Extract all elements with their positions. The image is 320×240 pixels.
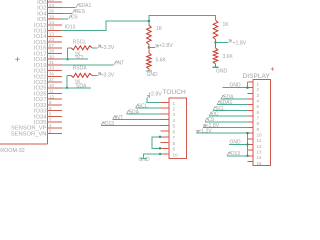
junction node at J1 pin 9 [159,147,161,149]
wire net INT from U1 IO19 [62,60,124,66]
pin 3 of J2 DISPLAY [248,93,260,98]
svg-text:24: 24 [49,3,54,8]
svg-text:7: 7 [49,117,52,122]
svg-text:10: 10 [173,152,179,157]
wire net SDA to J1 pin 3 [127,109,161,115]
supply +2.8V to J1 pin 1 [147,91,162,102]
pin IO27 (pad 12) of U1 [34,94,62,103]
wire net SCL to J2 pin 6 [213,106,248,112]
wire bracket joining J1 pins 7 and 9 [152,137,161,149]
svg-text:9: 9 [257,127,260,132]
pin 1 of J2 DISPLAY [248,81,260,86]
svg-text:25: 25 [49,0,54,2]
pin IO0 (pad 25) of U1 [37,0,62,6]
svg-text:IO13: IO13 [229,151,240,157]
wire net IO13 to J1 pin 5 [101,121,161,127]
svg-text:10: 10 [257,133,263,138]
ground flag GND under 3.6K [213,67,228,74]
svg-text:3: 3 [173,112,176,117]
svg-text:6: 6 [49,112,52,117]
pin IO17 (pad 28) of U1 [34,49,62,58]
svg-text:INT: INT [116,60,124,66]
supply +1.8V to J2 pin 9 [203,123,248,129]
pin IO23 (pad 37) of U1 [34,77,62,86]
junction node at J2 pin 14 [246,155,248,157]
pin 12 of J2 DISPLAY [248,144,263,149]
svg-text:7: 7 [173,135,176,140]
pin IO5 (pad 29) of U1 [37,14,62,23]
svg-text:1: 1 [173,101,176,106]
svg-text:RSCL: RSCL [73,40,87,46]
svg-text:GND: GND [216,69,228,75]
svg-text:33: 33 [49,66,54,71]
svg-text:SCL: SCL [75,55,85,61]
svg-text:36: 36 [49,72,54,77]
connector J2 origin cross mark [271,67,274,70]
wire net SCL from U1 IO18 [62,55,88,61]
svg-text:3: 3 [257,93,260,98]
svg-text:GND: GND [147,72,159,78]
junction node at J2 pin 2 [246,87,248,89]
pin IO35 (pad 7) of U1 [34,117,62,126]
resistor 1K (right divider top), value 1K [213,20,229,43]
svg-text:GND: GND [230,140,242,146]
supply +3.3V for RSDA [92,72,115,78]
connector J1 TOUCH body [169,98,187,159]
wire net RES from U1 IO4 [62,9,86,15]
pin 4 of J1 TOUCH [161,118,176,123]
svg-text:1K: 1K [156,26,163,32]
pin 2 of J1 TOUCH [161,107,176,112]
pin IO14 (pad 13) of U1 [34,31,62,40]
pin IO4 (pad 26) of U1 [37,9,62,18]
supply +3.3V for RSCL [92,45,115,51]
wire net SDA to J2 pin 4 [221,94,248,100]
wire net SDA1 to J2 pin 5 [217,100,248,106]
wire net SDA1 from U1 IO2 [62,3,91,9]
svg-text:IO13: IO13 [65,25,76,31]
svg-text:5: 5 [257,104,260,109]
svg-text:14: 14 [257,155,263,160]
svg-text:15: 15 [257,161,263,166]
svg-text:13: 13 [49,31,54,36]
pin 11 of J2 DISPLAY [248,138,262,143]
svg-text:3.6K: 3.6K [223,54,234,60]
svg-text:DISPLAY: DISPLAY [243,73,271,80]
pin SENSOR_VP (pad 4) of U1 [11,123,62,132]
svg-text:+2.8V: +2.8V [148,91,162,97]
svg-text:16: 16 [49,26,54,31]
pin 10 of J2 DISPLAY [248,133,263,138]
wire RSDA branch down to SDA [66,75,68,87]
svg-text:26: 26 [49,9,54,14]
wire net IO13 from U1 IO13 to resistor dividers [62,21,149,31]
resistor RSDA 1K pull-up on SDA [67,66,92,86]
svg-text:4: 4 [173,118,176,123]
wire top jog joining both divider tops [149,15,216,25]
ground flag GND under 5.6K [146,71,158,78]
svg-text:GND: GND [139,157,151,163]
junction node at J1 pin 10 [159,153,161,155]
pin IO32 (pad 8) of U1 [34,100,62,109]
resistor 1K (left divider top), value 1K [147,25,163,48]
pin 14 of J2 DISPLAY [248,155,263,160]
node +2.8V at left divider midpoint [148,43,174,49]
svg-text:14: 14 [49,20,54,25]
pin IO19 (pad 31) of U1 [34,60,62,69]
supply +1.2V to J2 pin 10 [196,129,248,135]
svg-text:+3.3V: +3.3V [101,72,115,78]
resistor 3.6K (right divider bottom), value 3.6K [213,43,233,67]
pin IO21 (pad 33) of U1 [34,66,62,75]
wire net INT to J1 pin 4 [113,115,161,121]
svg-text:5.6K: 5.6K [156,58,167,64]
svg-text:6: 6 [257,110,260,115]
svg-text:8: 8 [257,121,260,126]
svg-text:30: 30 [49,54,54,59]
svg-text:+1.2V: +1.2V [199,129,213,135]
svg-text:23: 23 [49,37,54,42]
svg-text:1: 1 [257,81,260,86]
svg-text:37: 37 [49,77,54,82]
IC U1 ESP-WROOM-32 body [0,0,48,144]
svg-text:10: 10 [49,83,54,88]
pin IO16 (pad 27) of U1 [34,43,62,52]
pin 4 of J2 DISPLAY [248,98,260,103]
svg-text:SCL: SCL [138,104,148,110]
svg-text:+1.8V: +1.8V [233,40,247,46]
svg-text:+2.8V: +2.8V [159,43,173,49]
svg-text:11: 11 [257,138,262,143]
wire net SDA from U1 IO25 [62,84,91,90]
svg-text:5: 5 [173,124,176,129]
svg-text:ROOM-32: ROOM-32 [0,148,25,154]
svg-text:INT: INT [115,115,123,121]
pin IO22 (pad 36) of U1 [34,72,62,81]
pin 15 of J2 DISPLAY [248,161,263,166]
pin 5 of J1 TOUCH [161,124,176,129]
svg-text:SDA: SDA [129,109,140,115]
junction node at J2 pin 12 [246,143,248,145]
svg-text:TOUCH: TOUCH [163,89,187,96]
wire net IO13 to J2 pin 14 [227,151,248,157]
pin IO2 (pad 24) of U1 [37,3,62,12]
junction node at J1 pin 7 [159,136,161,138]
svg-text:13: 13 [257,150,263,155]
svg-text:31: 31 [49,60,54,65]
resistor RSCL 1K pull-up on SCL [68,40,93,58]
svg-text:9: 9 [173,147,176,152]
svg-text:8: 8 [173,141,176,146]
ground flag GND to J2 pins 1-2 [223,82,248,89]
svg-text:11: 11 [49,89,54,94]
svg-text:29: 29 [49,14,54,19]
svg-text:GND: GND [230,83,242,89]
junction node on SDA wire [66,87,68,89]
pin IO34 (pad 6) of U1 [34,112,62,121]
pin 9 of J1 TOUCH [161,147,176,152]
wire bracket joining J2 pins 10-14 [247,133,249,156]
svg-text:2: 2 [173,107,176,112]
svg-text:IO13: IO13 [103,121,114,127]
pin 6 of J1 TOUCH [161,129,176,134]
pin IO18 (pad 30) of U1 [34,54,62,63]
svg-text:5: 5 [49,129,52,134]
svg-text:CS: CS [71,15,79,21]
part origin cross mark [15,57,20,62]
svg-text:4: 4 [49,123,52,128]
svg-text:12: 12 [257,144,263,149]
junction node on SCL wire [66,58,68,60]
pin 10 of J1 TOUCH [161,152,179,157]
svg-text:2: 2 [257,87,260,92]
pin 7 of J1 TOUCH [161,135,176,140]
svg-text:27: 27 [49,43,54,48]
pin 2 of J2 DISPLAY [248,87,260,92]
pin IO25 (pad 10) of U1 [34,83,62,92]
svg-text:12: 12 [49,94,54,99]
pin IO33 (pad 9) of U1 [34,106,62,115]
pin IO13 (pad 16) of U1 [34,26,62,35]
wire net CS to J2 pin 8 [205,117,248,123]
junction node at J2 pin 10 [246,132,248,134]
wire RSCL branch down to SCL [67,48,69,59]
pin 8 of J1 TOUCH [161,141,176,146]
wire net DC to J2 pin 7 [209,112,248,118]
pin SENSOR_VN (pad 5) of U1 [11,129,62,138]
wire net CS from U1 IO5 [62,15,78,21]
connector J2 DISPLAY body [253,80,271,166]
pin IO15 (pad 23) of U1 [34,37,62,46]
svg-text:+3.3V: +3.3V [101,45,115,51]
pin 5 of J2 DISPLAY [248,104,260,109]
svg-text:8: 8 [49,100,52,105]
svg-text:SDA: SDA [76,84,87,90]
pin 3 of J1 TOUCH [161,112,176,117]
ground flag GND to J2 pin 12 [229,140,248,146]
pin IO12 (pad 14) of U1 [34,20,62,29]
svg-text:4: 4 [257,98,260,103]
svg-text:7: 7 [257,116,260,121]
pin 6 of J2 DISPLAY [248,110,260,115]
pin 9 of J2 DISPLAY [248,127,260,132]
node +1.8V at right divider midpoint [214,40,246,46]
resistor 5.6K (left divider bottom), value 5.6K [147,48,167,71]
junction node IO13 / left divider top [148,20,150,22]
pin 8 of J2 DISPLAY [248,121,260,126]
ground flag GND from J1 pin 10 [139,154,161,163]
svg-text:6: 6 [173,129,176,134]
svg-text:1K: 1K [223,22,230,28]
svg-text:SENSOR_VN: SENSOR_VN [11,132,47,138]
wire net SCL to J1 pin 2 [136,104,161,110]
svg-text:9: 9 [49,106,52,111]
pin 7 of J2 DISPLAY [248,116,260,121]
pin 13 of J2 DISPLAY [248,150,263,155]
pin IO26 (pad 11) of U1 [34,89,62,98]
svg-text:RSDA: RSDA [73,66,88,72]
pin 1 of J1 TOUCH [161,101,176,106]
svg-text:28: 28 [49,49,54,54]
